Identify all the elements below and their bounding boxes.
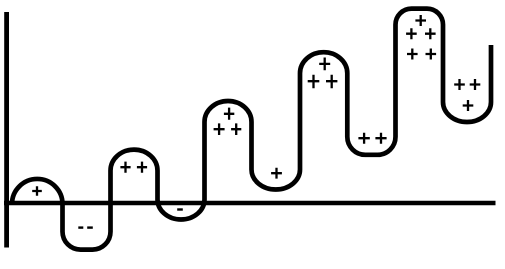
- plus sign left hump4: [308, 75, 320, 88]
- plus sign 1 dip4: [358, 133, 369, 144]
- minus sign 1 dip1: [78, 226, 83, 228]
- minus sign 2 dip1: [87, 226, 93, 228]
- plus sign row1 left dip5: [454, 79, 465, 90]
- plus sign row3 right hump5: [426, 49, 437, 60]
- plus sign 2 dip4: [375, 133, 386, 144]
- plus sign row2 left hump5: [406, 28, 417, 39]
- plus sign top hump4: [319, 58, 330, 71]
- plus sign hump1: [32, 186, 42, 196]
- plus sign row3 left hump5: [407, 49, 418, 60]
- plus sign top hump3: [224, 108, 234, 120]
- vertical axis: [4, 12, 9, 248]
- plus sign row2 dip5: [463, 100, 474, 111]
- plus sign dip3: [271, 168, 282, 179]
- plus sign row1 right dip5: [470, 79, 481, 90]
- plus sign top hump5: [415, 15, 426, 26]
- plus sign row2 right hump5: [425, 28, 436, 39]
- plus sign right hump3: [231, 123, 241, 135]
- plus sign 1 hump2: [120, 162, 130, 173]
- minus sign dip2: [177, 208, 183, 210]
- plus sign 2 hump2: [137, 162, 147, 173]
- plus sign left hump3: [214, 123, 225, 135]
- plus sign right hump4: [326, 75, 337, 88]
- horizontal axis: [4, 201, 496, 206]
